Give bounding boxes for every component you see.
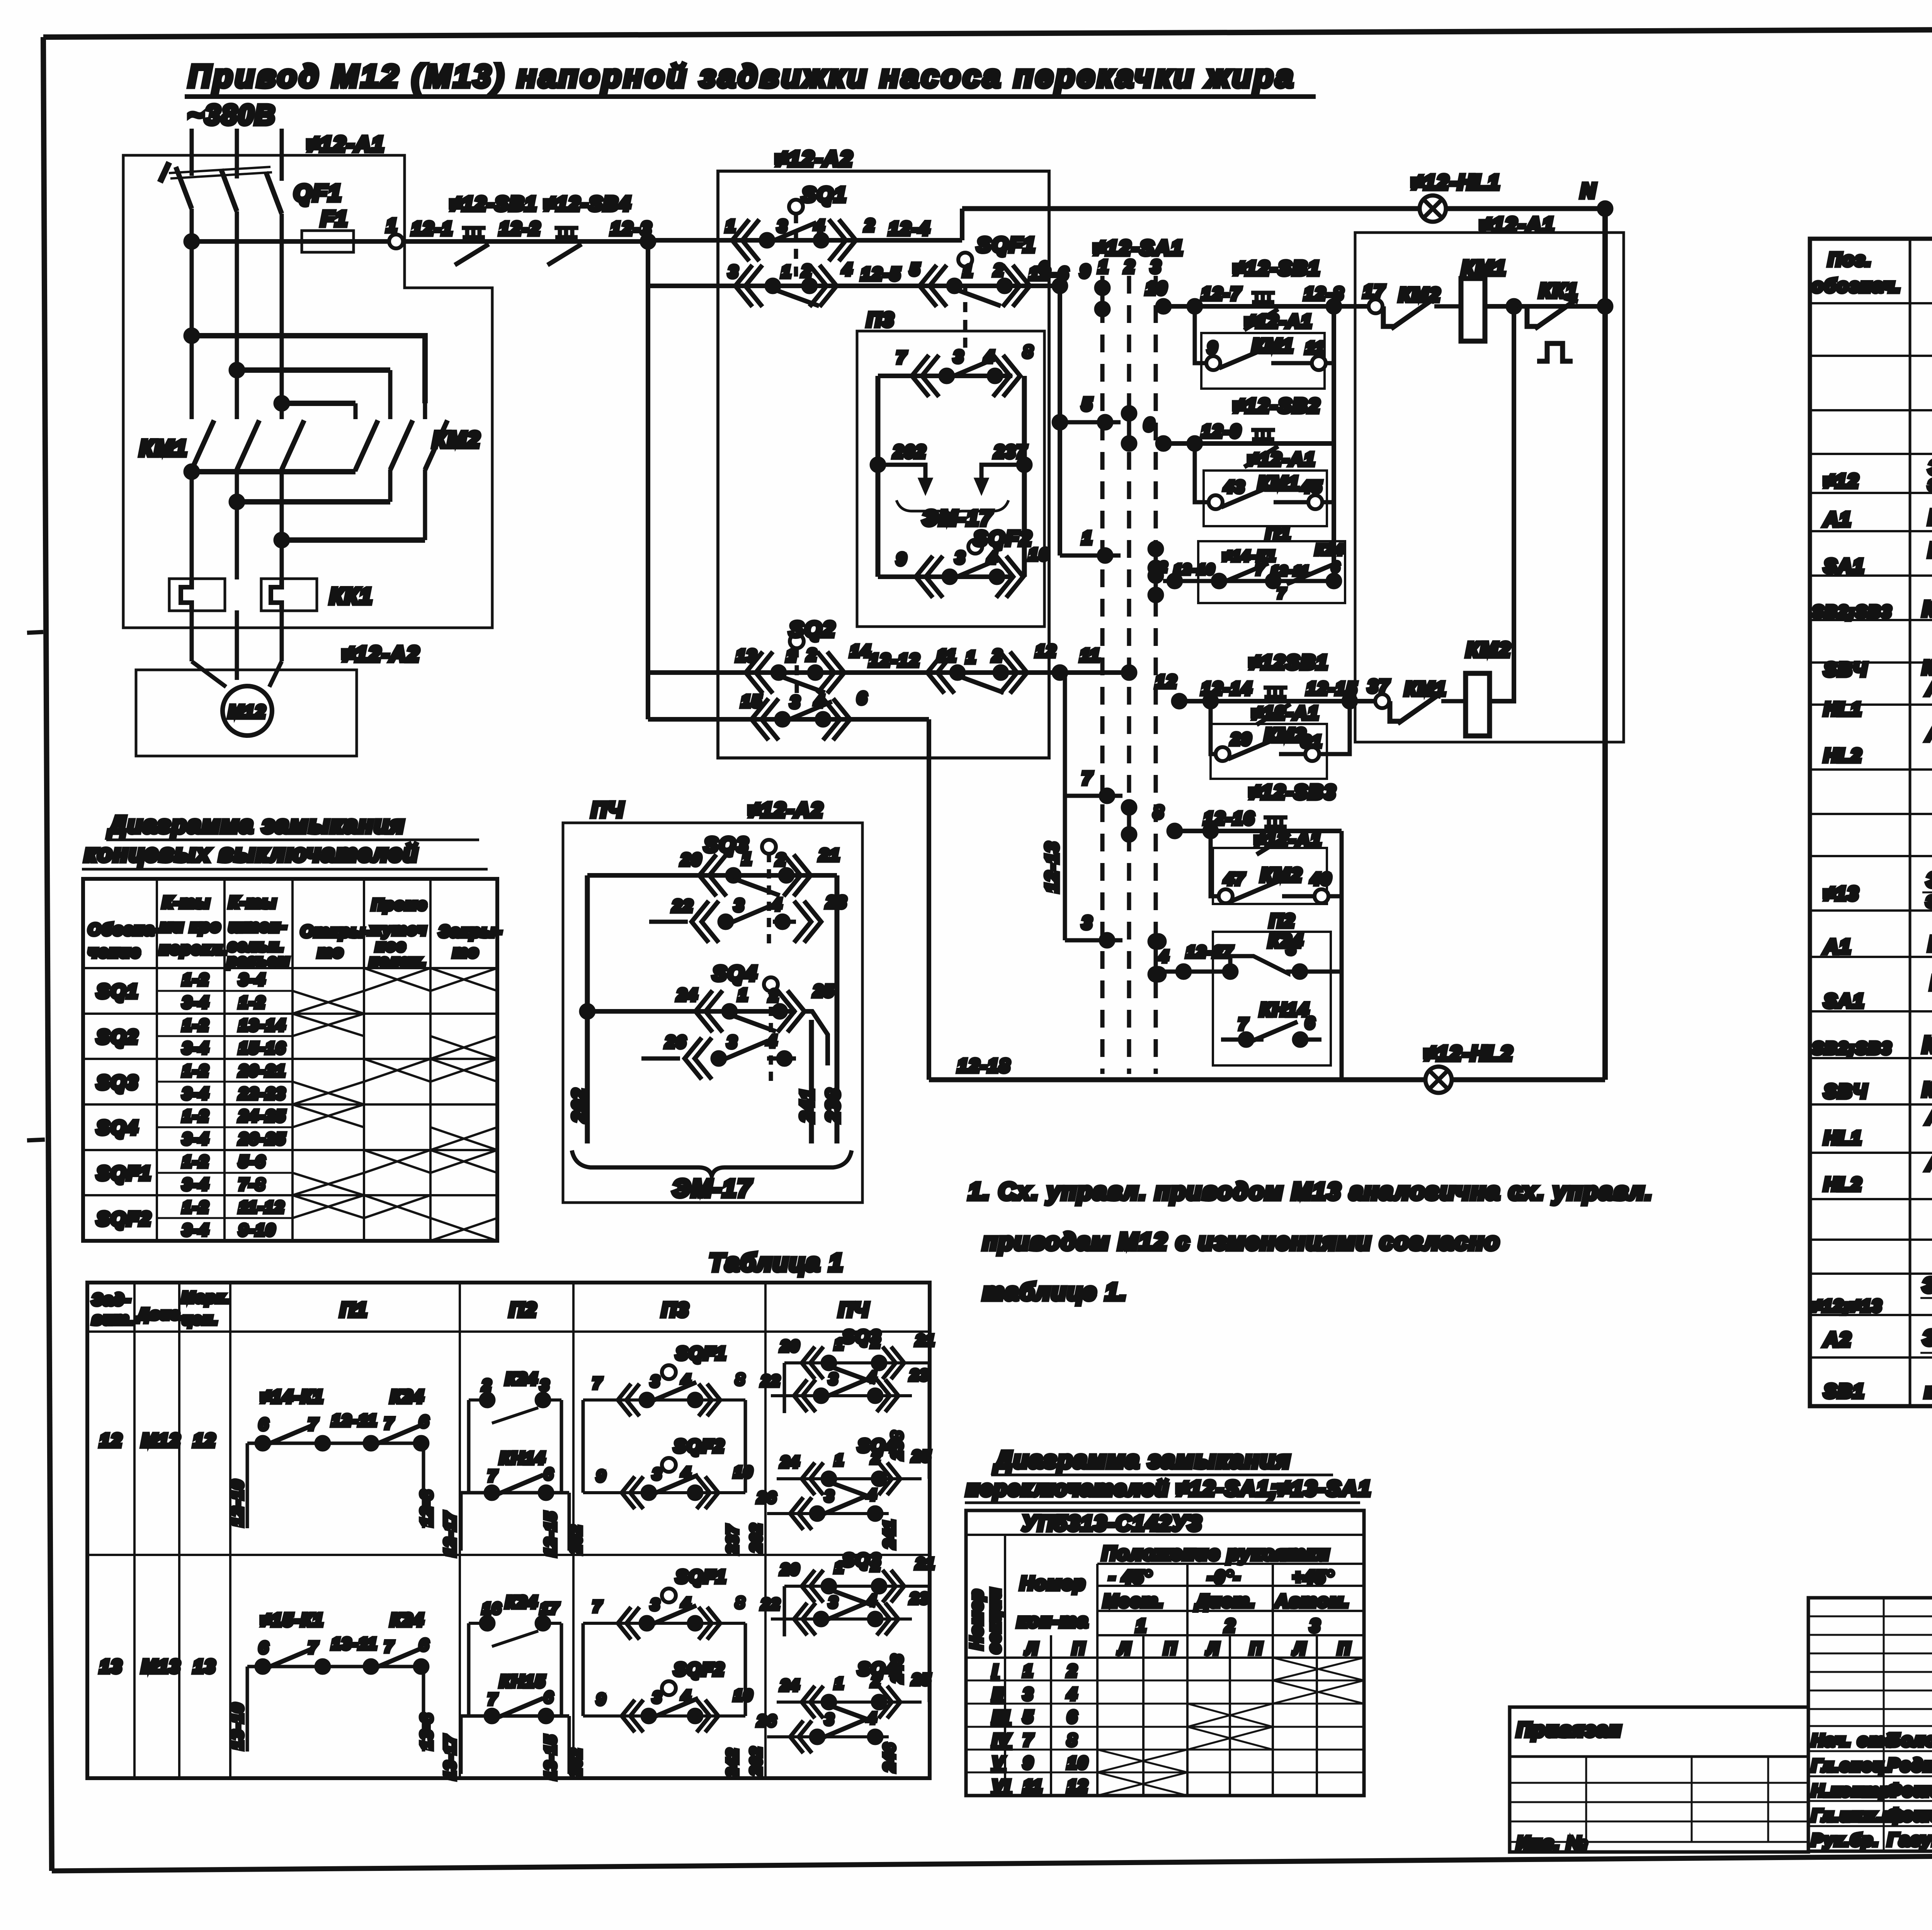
svg-text:-0°-: -0°-	[1207, 1567, 1241, 1587]
selector SA1 dashed column 1	[1100, 276, 1105, 1074]
svg-text:SQ4: SQ4	[97, 1117, 139, 1138]
svg-text:Марк.: Марк.	[182, 1289, 231, 1306]
svg-text:К24: К24	[505, 1369, 538, 1388]
svg-text:238: 238	[889, 1430, 906, 1460]
svg-text:202: 202	[748, 1746, 765, 1776]
svg-text:SQF1: SQF1	[676, 1566, 727, 1587]
svg-text:23: 23	[910, 1590, 930, 1607]
svg-text:HL1: HL1	[1824, 699, 1862, 720]
svg-text:3-4: 3-4	[182, 1175, 209, 1193]
crossover bridge top 1	[192, 336, 425, 403]
svg-text:4: 4	[867, 1710, 877, 1727]
svg-text:49: 49	[1310, 870, 1332, 889]
svg-text:8: 8	[1153, 802, 1165, 822]
svg-text:КМ1: КМ1	[1405, 678, 1447, 700]
SA1 contact dots col2 upper	[1123, 407, 1135, 450]
svg-text:3-4: 3-4	[182, 1084, 209, 1103]
svg-text:КМ1: КМ1	[1461, 257, 1507, 280]
svg-text:КН15: КН15	[500, 1672, 546, 1691]
svg-text:SB1: SB1	[1824, 1380, 1865, 1402]
svg-text:КМ2: КМ2	[432, 427, 481, 452]
SA1 dots col1 P2	[1152, 935, 1165, 980]
phase wire L1	[190, 129, 194, 661]
svg-text:25: 25	[813, 982, 835, 1001]
svg-text:III: III	[992, 1707, 1010, 1726]
wire 12-18 drop	[927, 719, 931, 1080]
svg-text:N: N	[1580, 179, 1597, 202]
svg-text:Фешин: Фешин	[1888, 1780, 1932, 1800]
svg-text:12-16: 12-16	[1204, 808, 1255, 828]
svg-text:Элементы управления: Элементы управления	[1922, 1274, 1932, 1297]
svg-text:≠12;≠13: ≠12;≠13	[1812, 1296, 1883, 1315]
svg-text:26: 26	[757, 1489, 777, 1506]
P3 wires 202/237	[872, 459, 1031, 491]
svg-text:перекл.: перекл.	[159, 940, 228, 958]
svg-text:Арматура ЛС-53 V 220в: Арматура ЛС-53 V 220в	[1925, 722, 1932, 746]
svg-text:ПЧ: ПЧ	[838, 1299, 869, 1321]
svg-text:6: 6	[544, 1689, 554, 1706]
svg-text:РБУ5401-03А2Ж: РБУ5401-03А2Ж	[1928, 931, 1932, 956]
NC contact KM2	[1383, 298, 1461, 329]
svg-text:3: 3	[727, 1033, 738, 1052]
svg-text:7: 7	[1023, 1731, 1034, 1750]
svg-text:Обозна-: Обозна-	[88, 920, 161, 938]
svg-text:12-5: 12-5	[861, 264, 901, 284]
limit switch SQ4 row 26-3-4	[641, 1038, 796, 1079]
svg-text:1: 1	[835, 1452, 844, 1469]
svg-text:22-23: 22-23	[238, 1084, 286, 1103]
svg-text:≠15-К1: ≠15-К1	[261, 1610, 324, 1630]
P3 right rail	[1022, 376, 1027, 577]
svg-text:20: 20	[780, 1338, 800, 1355]
privyazan box	[1510, 1707, 1808, 1852]
svg-text:Мест.: Мест.	[1103, 1591, 1164, 1611]
SA1 contact dots col3 upper	[1150, 543, 1162, 582]
terminal 37	[1375, 694, 1389, 708]
svg-text:I: I	[992, 1662, 998, 1680]
svg-text:П: П	[1164, 1639, 1177, 1658]
svg-text:7: 7	[593, 1375, 602, 1392]
P1 box	[1198, 541, 1345, 603]
limit switch SQ3 row 22-3-4-23	[649, 901, 821, 943]
svg-text:КМ2: КМ2	[1264, 724, 1306, 746]
svg-text:12-8: 12-8	[417, 1489, 435, 1526]
motor leads	[192, 661, 282, 687]
svg-text:13: 13	[193, 1656, 216, 1677]
svg-text:6: 6	[1305, 1014, 1315, 1032]
svg-text:переключателей ≠12-SA1;≠13-SA1: переключателей ≠12-SA1;≠13-SA1	[966, 1476, 1372, 1500]
svg-text:приводам М12 с изменениями с: приводам М12 с изменениями согласно	[983, 1228, 1500, 1255]
P3 left rail	[876, 376, 881, 577]
row SB3: wire 12-16	[1175, 829, 1342, 833]
svg-text:АрматураЛС-53 V 220в: АрматураЛС-53 V 220в	[1925, 1106, 1932, 1129]
svg-text:13: 13	[100, 1656, 122, 1677]
svg-text:4: 4	[772, 895, 782, 914]
svg-text:V: V	[992, 1753, 1005, 1772]
SA1 dots col3 at P1	[1150, 562, 1162, 601]
svg-text:1-2: 1-2	[182, 970, 209, 989]
svg-text:≠12-SA1: ≠12-SA1	[1094, 236, 1184, 260]
svg-text:1: 1	[726, 217, 736, 236]
junction dot 12-6	[1054, 280, 1066, 292]
svg-text:К24: К24	[1315, 542, 1344, 558]
svg-text:SQ3: SQ3	[842, 1550, 881, 1570]
svg-text:М12: М12	[228, 702, 266, 722]
branch riser x2743	[1058, 286, 1062, 556]
svg-text:21: 21	[819, 846, 840, 865]
svg-text:П1: П1	[1265, 524, 1291, 544]
svg-text:SB2;SB3: SB2;SB3	[1812, 1039, 1892, 1058]
svg-text:26: 26	[757, 1713, 777, 1730]
svg-text:3-4: 3-4	[182, 1221, 209, 1239]
wire 12-3 riser to SQ2	[646, 241, 650, 719]
svg-text:2: 2	[801, 262, 812, 280]
svg-text:HL2: HL2	[1824, 1174, 1862, 1195]
svg-text:1. Сх. управл. приводом М13 ан: 1. Сх. управл. приводом М13 аналогична с…	[968, 1178, 1653, 1205]
svg-text:1-2: 1-2	[182, 1062, 209, 1080]
svg-text:12-17: 12-17	[442, 1511, 459, 1556]
svg-text:толк.средн.1з 1р толк.нижн. 1з: толк.средн.1з 1р толк.нижн. 1з 1р	[1925, 1380, 1932, 1402]
tap 1	[1060, 549, 1121, 562]
crossover bridge bottom 1	[192, 469, 355, 474]
riser to N rail	[960, 209, 964, 240]
svg-text:12-17: 12-17	[1186, 943, 1233, 961]
svg-text:12-11: 12-11	[1271, 564, 1310, 578]
P2 right rail	[1340, 896, 1344, 1080]
svg-text:6: 6	[1067, 1707, 1078, 1726]
svg-text:9: 9	[1207, 338, 1218, 357]
svg-text:3-4: 3-4	[182, 1039, 209, 1057]
svg-text:кон-та: кон-та	[1017, 1611, 1089, 1631]
svg-text:+45°: +45°	[1293, 1567, 1334, 1587]
svg-text:6: 6	[1144, 415, 1155, 435]
svg-text:1: 1	[1098, 257, 1109, 277]
P1 row contacts 14-K1 / K24	[1163, 563, 1340, 587]
svg-text:Откры-: Откры-	[301, 922, 372, 940]
svg-text:2: 2	[864, 216, 875, 235]
svg-text:16: 16	[482, 1600, 502, 1617]
svg-text:4: 4	[984, 347, 995, 366]
lamp 12-HL2	[1425, 1067, 1452, 1093]
svg-text:202: 202	[568, 1524, 585, 1554]
svg-text:3: 3	[1151, 257, 1162, 277]
svg-text:РБУ 5401-03А2Ж: РБУ 5401-03А2Ж	[1928, 505, 1932, 529]
contactor KM1 poles	[192, 420, 304, 470]
svg-text:17: 17	[1363, 281, 1385, 301]
svg-text:Кнопка КЕ 011УЗ исполн.5,толк.: Кнопка КЕ 011УЗ исполн.5,толк.красн.	[1922, 657, 1932, 678]
svg-text:4: 4	[681, 1372, 691, 1389]
svg-text:25: 25	[912, 1448, 932, 1465]
P2 box	[1213, 932, 1331, 1065]
row KM1 start: wire 12-7/12-8	[1163, 304, 1370, 309]
svg-text:SBЧ: SBЧ	[1824, 1081, 1868, 1102]
SA1 contact dots col1	[1096, 282, 1109, 315]
svg-text:К24: К24	[1268, 931, 1304, 951]
SQF1 pivot	[958, 253, 972, 348]
breaker aux SQF2 contact	[878, 556, 1023, 598]
svg-text:3: 3	[734, 896, 745, 915]
row SB2: wire 12-9	[1163, 441, 1334, 446]
svg-text:≠12-А1: ≠12-А1	[307, 132, 385, 156]
svg-text:3: 3	[540, 1377, 550, 1394]
svg-text:Гл.спец.: Гл.спец.	[1811, 1756, 1891, 1775]
svg-text:3: 3	[651, 1373, 660, 1390]
svg-text:12-7: 12-7	[1201, 284, 1242, 304]
aux box 12-A1 KM2 29-31	[1211, 724, 1327, 779]
svg-text:1: 1	[738, 985, 748, 1004]
svg-text:≠14-К1: ≠14-К1	[261, 1386, 324, 1407]
fuse F1	[302, 231, 354, 252]
svg-text:202: 202	[748, 1523, 765, 1553]
svg-text:SQF2: SQF2	[973, 527, 1032, 550]
svg-text:7-8: 7-8	[239, 1175, 266, 1193]
svg-text:7: 7	[1277, 585, 1286, 601]
N rail with lamp HL1	[962, 206, 1420, 211]
pushbutton 12SB1 lower	[1257, 688, 1291, 725]
svg-text:A1: A1	[1823, 508, 1852, 531]
svg-text:22: 22	[672, 897, 694, 916]
svg-text:9: 9	[896, 550, 907, 569]
svg-text:КМ2: КМ2	[1466, 638, 1511, 661]
junction dot phase L1 tap	[185, 235, 198, 248]
P2 row K24	[1163, 956, 1342, 978]
svg-text:8: 8	[736, 1371, 745, 1388]
limit switch table frame	[83, 879, 497, 1241]
svg-text:7: 7	[896, 348, 907, 367]
svg-text:7: 7	[1082, 768, 1093, 788]
svg-text:КМ1: КМ1	[1252, 335, 1294, 357]
svg-text:Номер: Номер	[1020, 1573, 1086, 1594]
SA1 dots col2 lower	[1123, 801, 1135, 841]
pushbutton 12-SB3	[1257, 817, 1291, 855]
svg-text:Двиг.: Двиг.	[136, 1306, 185, 1323]
svg-text:11: 11	[1023, 1777, 1043, 1796]
pushbutton 12-SB4	[548, 228, 582, 265]
svg-text:SQ2: SQ2	[789, 617, 836, 641]
svg-text:7: 7	[488, 1691, 498, 1708]
svg-text:чение: чение	[88, 943, 141, 961]
svg-text:12-10: 12-10	[1174, 561, 1215, 577]
svg-text:Закры-: Закры-	[439, 922, 503, 940]
motor terminal box 12-A2	[136, 670, 357, 756]
NC contact KM1	[1390, 693, 1466, 724]
svg-text:3: 3	[651, 1596, 660, 1613]
svg-text:23: 23	[826, 893, 847, 912]
svg-text:47: 47	[1224, 870, 1245, 889]
svg-text:24: 24	[780, 1454, 800, 1471]
SA1 dots col3 lower	[1150, 935, 1162, 980]
svg-text:7: 7	[384, 1638, 394, 1655]
svg-text:SQ1: SQ1	[802, 183, 847, 206]
svg-text:3: 3	[790, 693, 801, 712]
svg-text:2: 2	[806, 646, 817, 664]
svg-text:М13: М13	[141, 1656, 181, 1677]
svg-text:4: 4	[681, 1688, 691, 1705]
svg-text:≠12-А1: ≠12-А1	[1248, 449, 1316, 470]
svg-text:≠12-А1: ≠12-А1	[1480, 213, 1555, 236]
svg-text:то: то	[453, 943, 479, 961]
svg-text:4: 4	[1067, 1685, 1078, 1704]
svg-text:SQF2: SQF2	[674, 1436, 725, 1456]
svg-text:Л: Л	[1293, 1639, 1306, 1658]
svg-text:К24: К24	[390, 1610, 424, 1630]
svg-text:Положение рукоятки: Положение рукоятки	[1102, 1543, 1330, 1564]
svg-text:26-25: 26-25	[238, 1130, 286, 1148]
svg-text:КМ2: КМ2	[1260, 864, 1303, 886]
phase wire L3	[280, 129, 284, 661]
svg-text:1: 1	[1023, 1662, 1034, 1680]
svg-text:4: 4	[867, 1369, 877, 1386]
svg-text:2: 2	[482, 1377, 492, 1394]
svg-text:4: 4	[814, 692, 825, 711]
svg-text:Кнопка КЕ011УЗ исполн.2: Кнопка КЕ011УЗ исполн.2	[1922, 1032, 1932, 1058]
wire coil KM2 to riser	[1489, 306, 1514, 701]
svg-text:П3: П3	[662, 1299, 689, 1321]
svg-text:13-8: 13-8	[417, 1713, 435, 1750]
PCh left rail 202	[585, 875, 590, 1143]
phase wire L2	[235, 129, 239, 680]
svg-text:Номер: Номер	[967, 1589, 986, 1650]
svg-text:3: 3	[829, 1371, 838, 1388]
svg-text:12-13: 12-13	[1042, 841, 1062, 892]
svg-text:- 45°: - 45°	[1109, 1567, 1153, 1587]
svg-text:Таблица 1: Таблица 1	[709, 1249, 844, 1276]
svg-text:7: 7	[1256, 562, 1265, 578]
svg-text:12: 12	[193, 1431, 216, 1451]
svg-text:1-2: 1-2	[239, 993, 266, 1011]
svg-text:разъем: разъем	[227, 952, 290, 969]
svg-text:3: 3	[1287, 940, 1297, 958]
svg-text:9: 9	[597, 1468, 606, 1485]
relay cabinet box 12-A1 right	[1355, 233, 1624, 742]
svg-text:Рук.бр.: Рук.бр.	[1811, 1831, 1879, 1850]
svg-text:ЭМ-17: ЭМ-17	[672, 1174, 752, 1202]
position header	[1097, 1563, 1364, 1565]
svg-text:КК1: КК1	[330, 584, 373, 609]
KM2 aux 47-49 branch	[1211, 831, 1342, 896]
svg-text:≠12-А2: ≠12-А2	[342, 642, 420, 666]
svg-text:12-15: 12-15	[542, 1511, 559, 1556]
svg-text:7: 7	[384, 1415, 394, 1432]
svg-text:SA1: SA1	[1824, 990, 1865, 1012]
svg-text:3-4: 3-4	[182, 1130, 209, 1148]
svg-text:3: 3	[829, 1594, 838, 1611]
svg-text:КН14: КН14	[500, 1449, 546, 1468]
svg-text:К24: К24	[505, 1593, 538, 1612]
EM-17 brace	[896, 500, 1009, 518]
svg-text:4: 4	[867, 1487, 877, 1504]
P3 row 7-3-4-8	[878, 355, 1020, 397]
svg-text:2: 2	[992, 646, 1003, 665]
svg-text:2: 2	[769, 986, 779, 1005]
svg-text:23: 23	[910, 1367, 930, 1384]
svg-text:6: 6	[1332, 559, 1340, 575]
svg-text:Арматура ЛС-53 V 220в: Арматура ЛС-53 V 220в	[1925, 677, 1932, 700]
SQ1 pivot	[789, 200, 803, 286]
svg-text:П: П	[1338, 1639, 1351, 1658]
svg-text:то: то	[318, 943, 344, 961]
svg-text:12: 12	[1155, 671, 1177, 691]
svg-text:4: 4	[814, 217, 825, 236]
svg-text:2: 2	[776, 850, 786, 869]
svg-text:1-2: 1-2	[182, 1152, 209, 1171]
svg-text:12: 12	[1036, 642, 1057, 661]
svg-text:13: 13	[736, 646, 757, 665]
SQ4 pivot	[764, 977, 778, 1086]
svg-text:3: 3	[1310, 1616, 1321, 1636]
svg-text:КМ1: КМ1	[139, 436, 188, 461]
svg-text:7: 7	[488, 1468, 498, 1485]
svg-text:П2: П2	[509, 1299, 537, 1321]
table1 row2 P1 circuit	[247, 1667, 423, 1752]
svg-text:13-14: 13-14	[239, 1016, 286, 1034]
svg-text:КнопкаКЕ 011УЗ исполн.2,толк.: КнопкаКЕ 011УЗ исполн.2,толк. черн.	[1922, 596, 1932, 621]
svg-text:11: 11	[937, 646, 957, 665]
border frame	[43, 27, 1932, 37]
wire SQ1 row 2 (12-5 / SQF1 / 12-6)	[648, 284, 1060, 288]
svg-text:13-17: 13-17	[442, 1735, 459, 1780]
svg-text:5: 5	[910, 260, 920, 279]
svg-text:SQ3: SQ3	[842, 1327, 881, 1347]
svg-text:4: 4	[1159, 947, 1169, 965]
svg-text:SA1: SA1	[1824, 555, 1865, 577]
svg-text:3: 3	[728, 262, 739, 281]
tap 5	[1054, 416, 1121, 428]
svg-text:5-6: 5-6	[239, 1152, 266, 1171]
limit switch SQ4 row 24-1-2-25	[581, 990, 828, 1065]
svg-text:14: 14	[850, 642, 871, 661]
svg-text:Фешин: Фешин	[1888, 1805, 1932, 1825]
svg-text:≠13: ≠13	[1824, 883, 1859, 904]
svg-text:243: 243	[889, 1653, 906, 1683]
svg-text:7: 7	[308, 1638, 318, 1656]
connector box PCh	[563, 823, 862, 1203]
svg-text:1-2: 1-2	[182, 1198, 209, 1216]
svg-text:9: 9	[597, 1691, 606, 1708]
selector SA1 dashed column 2	[1127, 276, 1131, 1074]
table 1 frame	[87, 1283, 930, 1778]
svg-text:Дист.: Дист.	[1194, 1591, 1256, 1611]
KM2 holding branch 29-31	[1211, 701, 1350, 754]
svg-text:1-2: 1-2	[182, 1107, 209, 1125]
svg-text:1: 1	[386, 216, 398, 236]
svg-text:1: 1	[966, 648, 976, 667]
svg-text:≠12-SB2: ≠12-SB2	[1233, 395, 1321, 417]
svg-text:45: 45	[1301, 477, 1323, 496]
svg-text:43: 43	[1224, 477, 1245, 496]
svg-text:241: 241	[797, 1088, 818, 1123]
svg-text:КМ1: КМ1	[1258, 472, 1300, 494]
svg-text:1: 1	[742, 849, 752, 868]
aux box 12-A1 KM1 43-45	[1204, 471, 1327, 526]
signature column table	[1808, 1598, 1932, 1851]
pushbutton 12-SB1	[1244, 293, 1278, 330]
limit switch SQ1 contact 1-2	[732, 219, 856, 261]
table1 row2 P3 circuit	[583, 1623, 745, 1716]
svg-text:≠12-А2: ≠12-А2	[748, 799, 824, 822]
svg-text:QF1: QF1	[294, 180, 342, 206]
SQF2 pivot	[968, 540, 982, 554]
svg-text:6: 6	[544, 1466, 554, 1483]
svg-text:≠12-А1: ≠12-А1	[1252, 703, 1320, 724]
svg-text:6: 6	[419, 1412, 429, 1431]
svg-text:таблице 1.: таблице 1.	[983, 1279, 1128, 1305]
svg-text:237: 237	[994, 442, 1027, 462]
svg-text:КнопкаКЕ011УЗ исполн.2толк.кра: КнопкаКЕ011УЗ исполн.2толк.красн.	[1922, 1079, 1932, 1101]
svg-text:2: 2	[993, 261, 1004, 280]
svg-text:8: 8	[1067, 1731, 1078, 1750]
motor M12	[223, 686, 272, 736]
